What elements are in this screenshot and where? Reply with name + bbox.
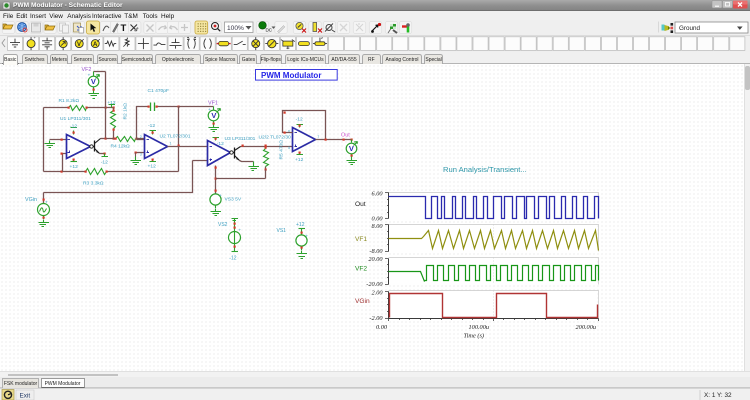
svg-text:VF2: VF2 — [82, 67, 92, 73]
wire: U2/2 feedback loop — [283, 111, 326, 140]
ground under Out meter — [347, 157, 358, 165]
svg-text:7: 7 — [317, 135, 319, 139]
svg-text:Run Analysis/Transient...: Run Analysis/Transient... — [443, 165, 527, 174]
svg-text:100%: 100% — [227, 25, 244, 32]
svg-text:Time (s): Time (s) — [464, 333, 484, 340]
svg-text:+12: +12 — [107, 100, 116, 106]
U1 power stubs — [73, 131, 75, 135]
svg-text:+12: +12 — [295, 157, 304, 163]
svg-text:U2/2 TL072/30: U2/2 TL072/30 — [259, 134, 292, 140]
plot frame VF2 — [389, 258, 598, 285]
x axis — [389, 318, 599, 320]
svg-text:T: T — [121, 23, 127, 34]
resistor R3 3.3k — [86, 169, 107, 175]
ground under VF2 — [89, 91, 100, 99]
svg-text:z: z — [321, 36, 323, 40]
ground under VF1 — [209, 125, 220, 132]
transistor Q at U3 output — [230, 151, 233, 154]
svg-text:2.00: 2.00 — [371, 289, 383, 296]
svg-text:-12: -12 — [101, 160, 108, 166]
wire: U1 - input stub with ground — [50, 139, 67, 141]
wire: VF2 connection y=71.2 — [94, 71, 106, 73]
wire: Q2 collector — [241, 146, 293, 148]
svg-text:-12: -12 — [70, 124, 77, 130]
ground under VS3 — [211, 209, 222, 216]
wire: bottom return y=178.5 — [216, 170, 266, 179]
maximize button — [723, 1, 733, 9]
svg-text:VS3 5V: VS3 5V — [225, 197, 242, 203]
wire: feedback vertical x=178.6 — [178, 107, 180, 172]
svg-text:+12: +12 — [296, 222, 305, 228]
svg-text:R4 12kΩ: R4 12kΩ — [111, 143, 130, 149]
svg-text:U2 TL072/301: U2 TL072/301 — [160, 134, 191, 140]
svg-text:V: V — [211, 111, 216, 120]
svg-text:U3 LP311/301: U3 LP311/301 — [225, 136, 256, 142]
svg-text:VGin: VGin — [355, 298, 370, 305]
resistor R4 12k — [116, 137, 136, 142]
svg-text:VS1: VS1 — [277, 228, 287, 234]
svg-text:+: + — [88, 73, 91, 78]
svg-text:R1 8.2kΩ: R1 8.2kΩ — [59, 98, 80, 104]
svg-text:-8.00: -8.00 — [369, 248, 383, 255]
svg-text:Out: Out — [355, 201, 366, 208]
plot frame Out — [389, 193, 598, 220]
ground at U1 - input — [45, 141, 56, 148]
svg-text:0.00: 0.00 — [376, 324, 388, 331]
trace VF2 — [389, 266, 599, 282]
source VS2 — [232, 219, 239, 221]
wire: left vertical x=43.2 — [43, 108, 45, 172]
svg-text:2: 2 — [140, 135, 142, 139]
svg-text:R3 3.3kΩ: R3 3.3kΩ — [83, 181, 104, 187]
ground under VGin — [39, 220, 50, 227]
wire: output to Out node — [316, 139, 352, 141]
svg-text:Exit: Exit — [20, 392, 31, 399]
wire: Q1 collector to rail — [101, 138, 106, 140]
svg-text:Ground: Ground — [679, 25, 701, 32]
app icon — [3, 2, 10, 9]
U3 bottom pin to VS3 — [215, 166, 217, 195]
title box PWM Modulator — [256, 70, 338, 81]
svg-text:-12: -12 — [296, 117, 303, 123]
capacitor C1 470pF — [151, 103, 155, 112]
U2/2 power stubs — [297, 124, 304, 128]
trace VF1 — [389, 231, 599, 251]
trace Out — [389, 197, 599, 219]
svg-text:-20.00: -20.00 — [366, 281, 383, 288]
wire: U1 + input riser x=62 — [63, 154, 67, 172]
U2 power stubs — [150, 131, 157, 135]
resistor R2 1k vertical — [113, 108, 115, 139]
op-amp U2 TL072/301 — [137, 139, 145, 141]
op-amp U2/2 TL072 — [293, 128, 316, 152]
svg-text:6.00: 6.00 — [371, 190, 383, 197]
svg-text:VF2: VF2 — [355, 266, 367, 273]
svg-text:V: V — [77, 42, 81, 48]
toolbar icons — [2, 22, 14, 34]
resistor R5 470 vertical — [265, 147, 267, 170]
svg-text:-12: -12 — [148, 123, 155, 129]
source VS3 5V — [210, 194, 221, 205]
svg-text:8.00: 8.00 — [371, 223, 383, 230]
wire: U2 out to U3 - input y=146 — [168, 146, 208, 148]
wire: R4 net y=139 — [106, 138, 137, 140]
svg-text:R2 1kΩ: R2 1kΩ — [123, 103, 129, 120]
svg-text:V: V — [91, 77, 96, 86]
svg-text:1: 1 — [170, 141, 172, 145]
close button — [733, 1, 748, 9]
svg-text:-2.00: -2.00 — [369, 315, 383, 322]
ground under VS1 — [297, 251, 308, 259]
transistor Q at U1 output — [90, 145, 93, 148]
voltmeter VF2 — [88, 76, 99, 87]
svg-text:VS2: VS2 — [218, 222, 228, 228]
svg-text:VGin: VGin — [25, 197, 37, 203]
svg-text:+: + — [208, 108, 211, 113]
svg-text:+12: +12 — [70, 164, 79, 170]
ground at Q2 emitter — [249, 164, 260, 171]
svg-text:+: + — [219, 194, 222, 199]
svg-text:Out: Out — [341, 133, 350, 139]
wire: VGin riser x=193 and U3 + input — [44, 161, 208, 204]
svg-text:5: 5 — [288, 146, 290, 150]
svg-text:A: A — [93, 42, 98, 48]
wire: VF1 tap — [179, 106, 214, 108]
wire: +12 rail vertical x=105.2 — [105, 72, 107, 139]
junction dots R1 — [68, 107, 70, 109]
svg-text:U1 LP311/301: U1 LP311/301 — [60, 116, 91, 122]
wire: C1 branch — [137, 107, 179, 139]
svg-text:+12: +12 — [148, 163, 157, 169]
resistor R1 8.2k zigzag — [69, 106, 87, 111]
op-amp U3 LP311/301 — [208, 141, 231, 166]
svg-text:+: + — [45, 201, 48, 206]
svg-text:100.00u: 100.00u — [469, 324, 489, 331]
wire: bottom loop y=171.6 — [44, 171, 179, 173]
svg-text:20.00: 20.00 — [368, 256, 383, 263]
op-amp U1 LP311/301 — [67, 135, 91, 159]
trace VGin — [390, 294, 598, 318]
minimize button — [712, 1, 722, 9]
U3 power stub top — [213, 137, 220, 141]
voltmeter VF1 — [208, 110, 219, 121]
plot frame VF1 — [389, 225, 598, 252]
svg-text:0.00: 0.00 — [371, 216, 383, 223]
svg-text:C1 470pF: C1 470pF — [148, 88, 169, 94]
voltmeter Out — [346, 143, 357, 154]
svg-text:200.00u: 200.00u — [576, 324, 596, 331]
svg-text:DC: DC — [266, 28, 273, 33]
plot frame VGin — [389, 291, 598, 319]
svg-text:R5 470Ω: R5 470Ω — [279, 140, 285, 160]
wire: U2 + input to ground — [136, 152, 145, 154]
svg-text:-12: -12 — [217, 141, 224, 147]
svg-text:X: 1 Y: 32: X: 1 Y: 32 — [704, 392, 732, 399]
svg-text:VF1: VF1 — [355, 236, 367, 243]
wire: Q1 emitter to -12 — [100, 153, 105, 155]
wire: R1 net horizontal y=107.8 — [44, 107, 114, 109]
+12 bar symbol on R1 net — [109, 105, 116, 108]
wire: Q2 emitter to ground — [240, 161, 254, 162]
svg-text:3: 3 — [140, 152, 142, 156]
generator VGin — [38, 204, 50, 216]
svg-text:-12: -12 — [229, 256, 236, 262]
svg-text:PWM Modulator: PWM Modulator — [261, 71, 321, 80]
svg-text:VF1: VF1 — [208, 101, 218, 107]
